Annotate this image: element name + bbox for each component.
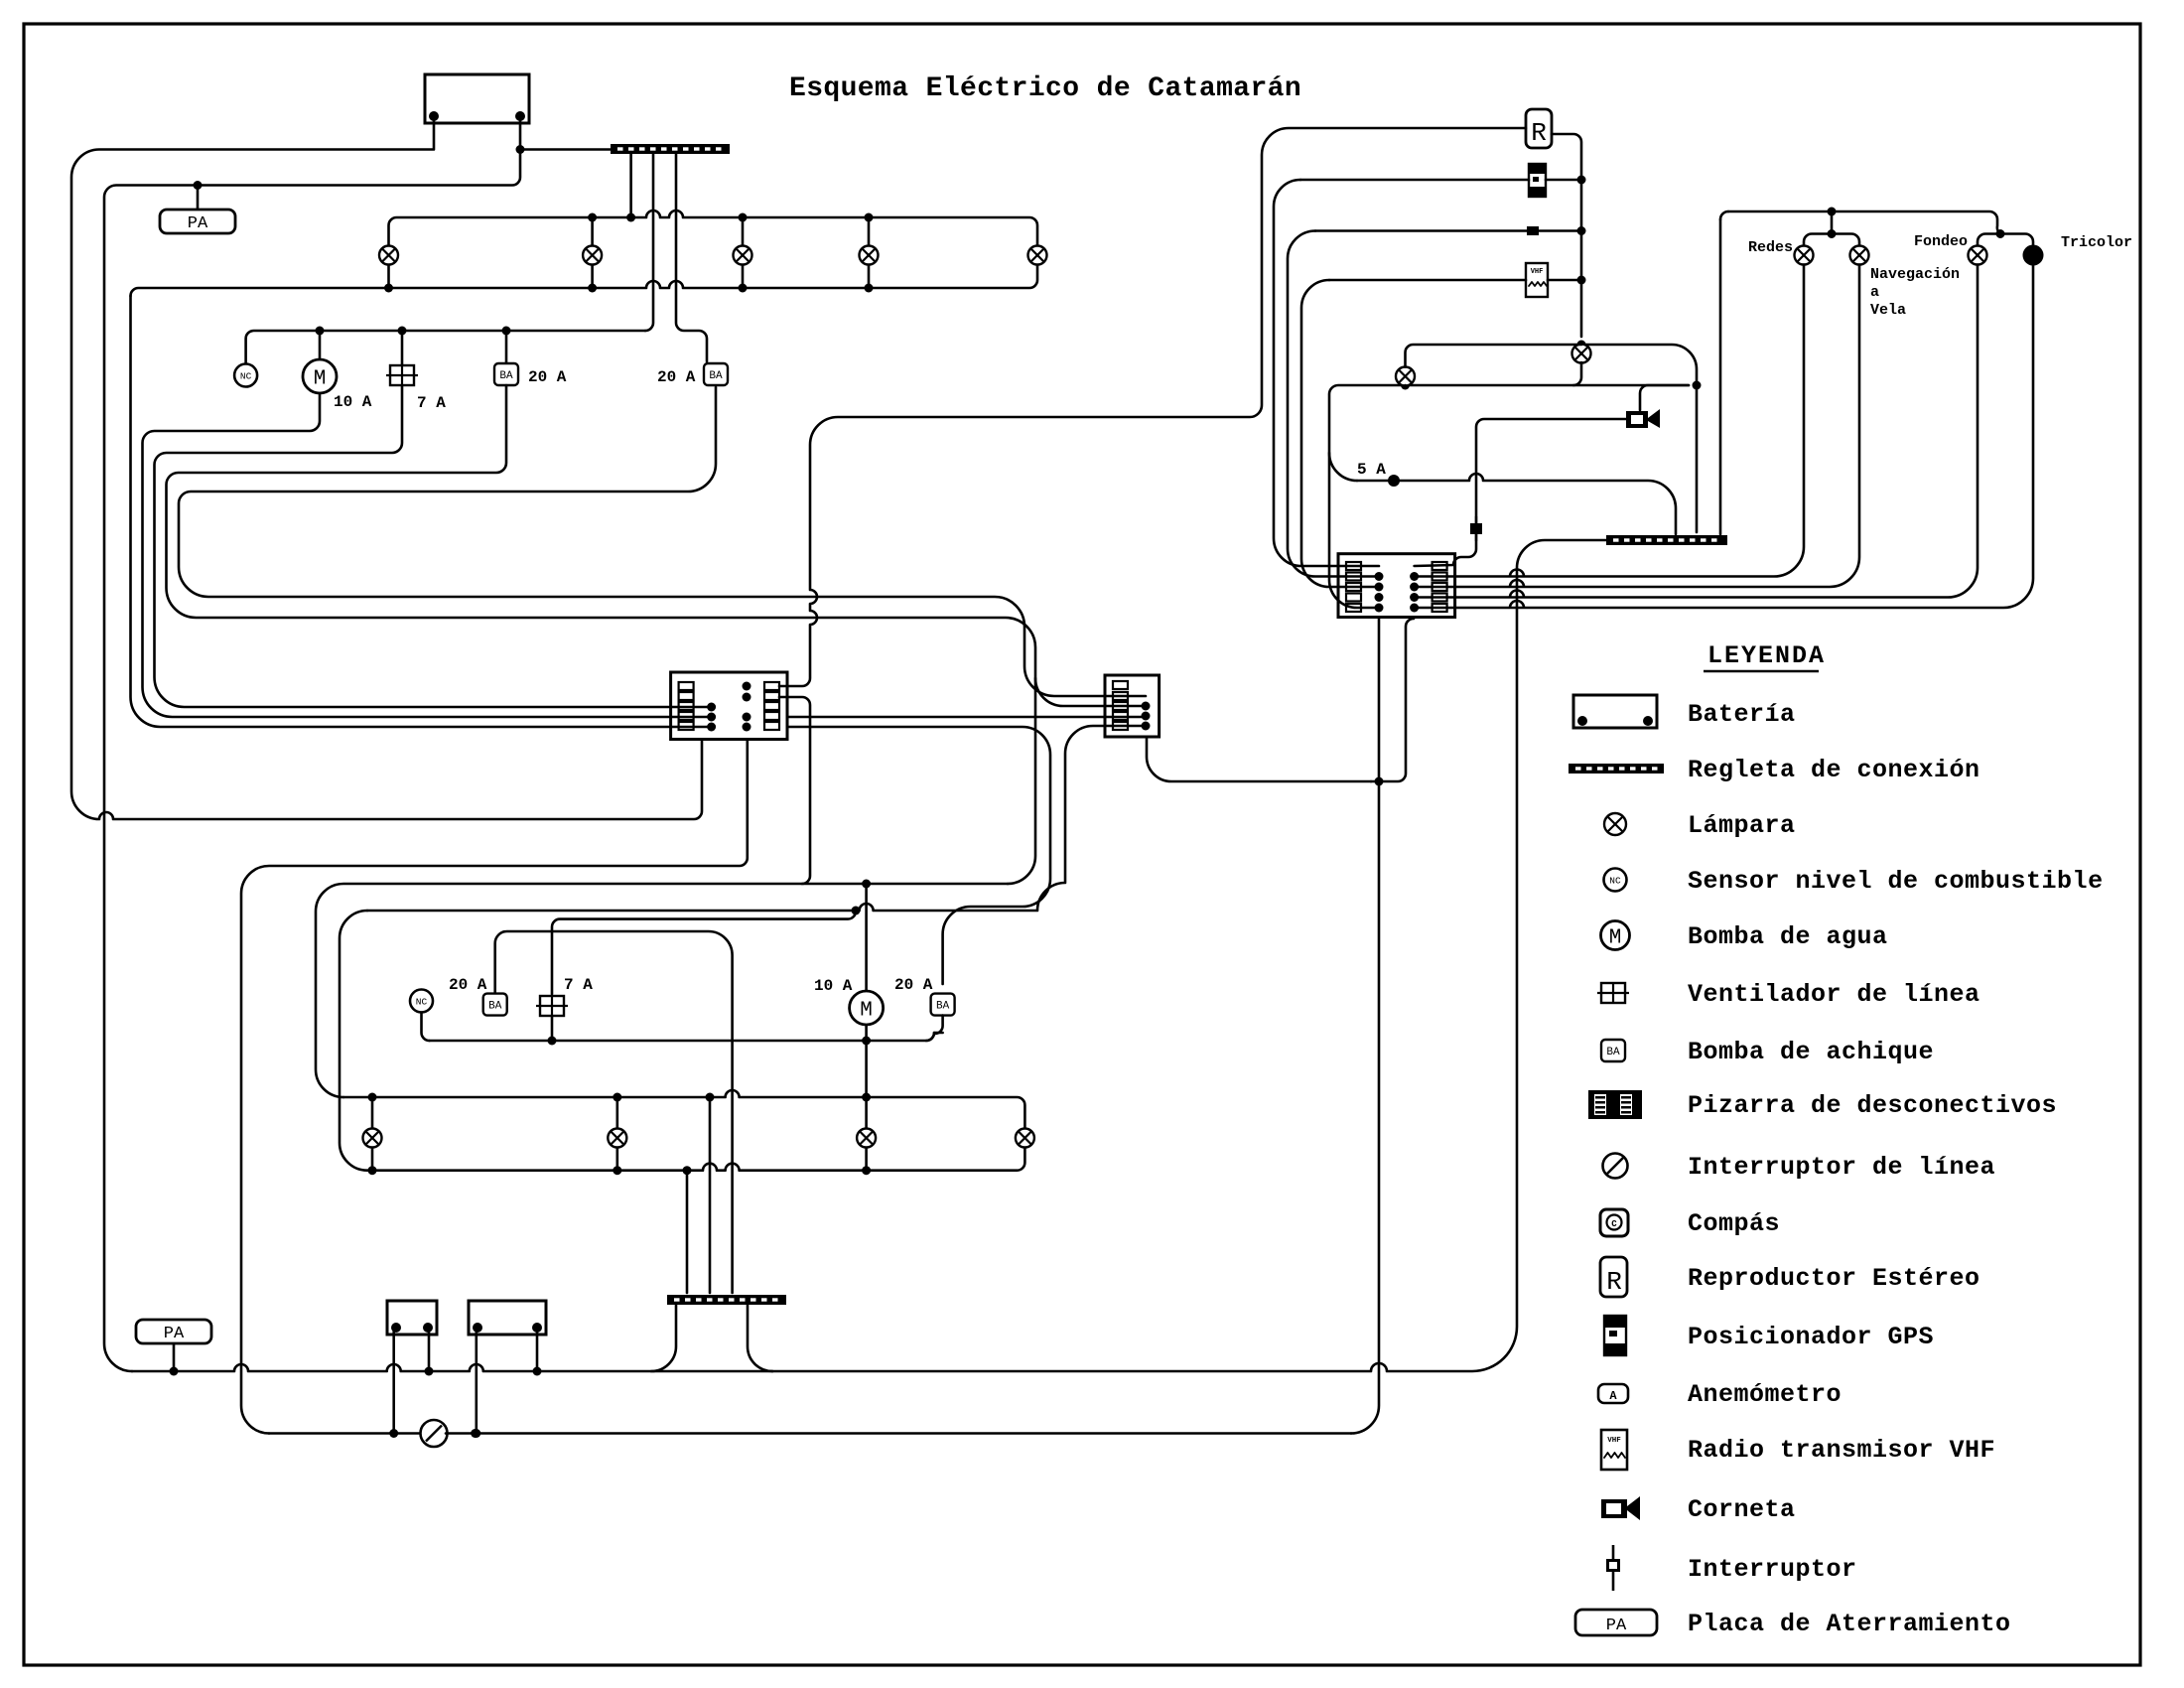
svg-text:Interruptor de línea: Interruptor de línea	[1688, 1153, 1995, 1182]
svg-text:20 A: 20 A	[449, 976, 487, 994]
svg-text:R: R	[1531, 118, 1547, 148]
svg-text:M: M	[314, 368, 327, 391]
svg-text:M: M	[1609, 927, 1622, 950]
svg-text:Tricolor: Tricolor	[2061, 234, 2132, 251]
svg-text:10 A: 10 A	[814, 977, 853, 995]
svg-text:Regleta de conexión: Regleta de conexión	[1688, 756, 1980, 784]
svg-text:Navegación: Navegación	[1870, 266, 1960, 283]
svg-text:a: a	[1870, 284, 1879, 301]
svg-text:Fondeo: Fondeo	[1914, 233, 1968, 250]
svg-text:Lámpara: Lámpara	[1688, 811, 1796, 840]
svg-text:C: C	[1611, 1219, 1617, 1229]
svg-text:Batería: Batería	[1688, 700, 1796, 729]
svg-text:20 A: 20 A	[894, 976, 933, 994]
svg-text:R: R	[1606, 1267, 1622, 1297]
svg-text:7 A: 7 A	[417, 394, 446, 412]
svg-text:Ventilador de línea: Ventilador de línea	[1688, 980, 1980, 1009]
svg-text:BA: BA	[936, 1001, 950, 1013]
svg-text:Compás: Compás	[1688, 1209, 1780, 1238]
svg-text:PA: PA	[188, 214, 208, 233]
svg-text:Pizarra de desconectivos: Pizarra de desconectivos	[1688, 1091, 2057, 1120]
svg-text:VHF: VHF	[1531, 268, 1544, 276]
svg-text:Reproductor Estéreo: Reproductor Estéreo	[1688, 1264, 1980, 1293]
svg-text:Esquema Eléctrico de Catamarán: Esquema Eléctrico de Catamarán	[789, 73, 1301, 104]
svg-text:BA: BA	[1606, 1047, 1620, 1058]
svg-text:20 A: 20 A	[528, 368, 567, 386]
svg-text:BA: BA	[709, 370, 723, 382]
svg-text:Redes: Redes	[1748, 239, 1793, 256]
svg-text:NC: NC	[416, 997, 428, 1008]
svg-text:BA: BA	[499, 370, 513, 382]
svg-text:7 A: 7 A	[564, 976, 593, 994]
svg-text:Corneta: Corneta	[1688, 1495, 1796, 1524]
svg-text:NC: NC	[240, 371, 252, 382]
svg-text:Placa de Aterramiento: Placa de Aterramiento	[1688, 1610, 2011, 1638]
svg-text:PA: PA	[1606, 1617, 1627, 1635]
svg-text:VHF: VHF	[1607, 1437, 1621, 1445]
svg-text:PA: PA	[164, 1325, 185, 1343]
svg-text:20 A: 20 A	[657, 368, 696, 386]
svg-text:Radio transmisor VHF: Radio transmisor VHF	[1688, 1436, 1995, 1465]
svg-text:Bomba de agua: Bomba de agua	[1688, 922, 1888, 951]
svg-text:M: M	[860, 1000, 873, 1023]
svg-text:10 A: 10 A	[334, 393, 372, 411]
svg-text:Vela: Vela	[1870, 302, 1906, 319]
svg-text:5 A: 5 A	[1357, 461, 1386, 479]
svg-text:Anemómetro: Anemómetro	[1688, 1380, 1842, 1409]
svg-text:LEYENDA: LEYENDA	[1707, 641, 1826, 670]
svg-text:BA: BA	[488, 1001, 502, 1013]
svg-text:NC: NC	[1609, 876, 1621, 887]
svg-text:Bomba de achique: Bomba de achique	[1688, 1038, 1934, 1066]
svg-text:Posicionador GPS: Posicionador GPS	[1688, 1323, 1934, 1351]
svg-text:Interruptor: Interruptor	[1688, 1555, 1857, 1584]
svg-text:Sensor nivel de combustible: Sensor nivel de combustible	[1688, 867, 2104, 896]
svg-text:A: A	[1609, 1389, 1617, 1403]
